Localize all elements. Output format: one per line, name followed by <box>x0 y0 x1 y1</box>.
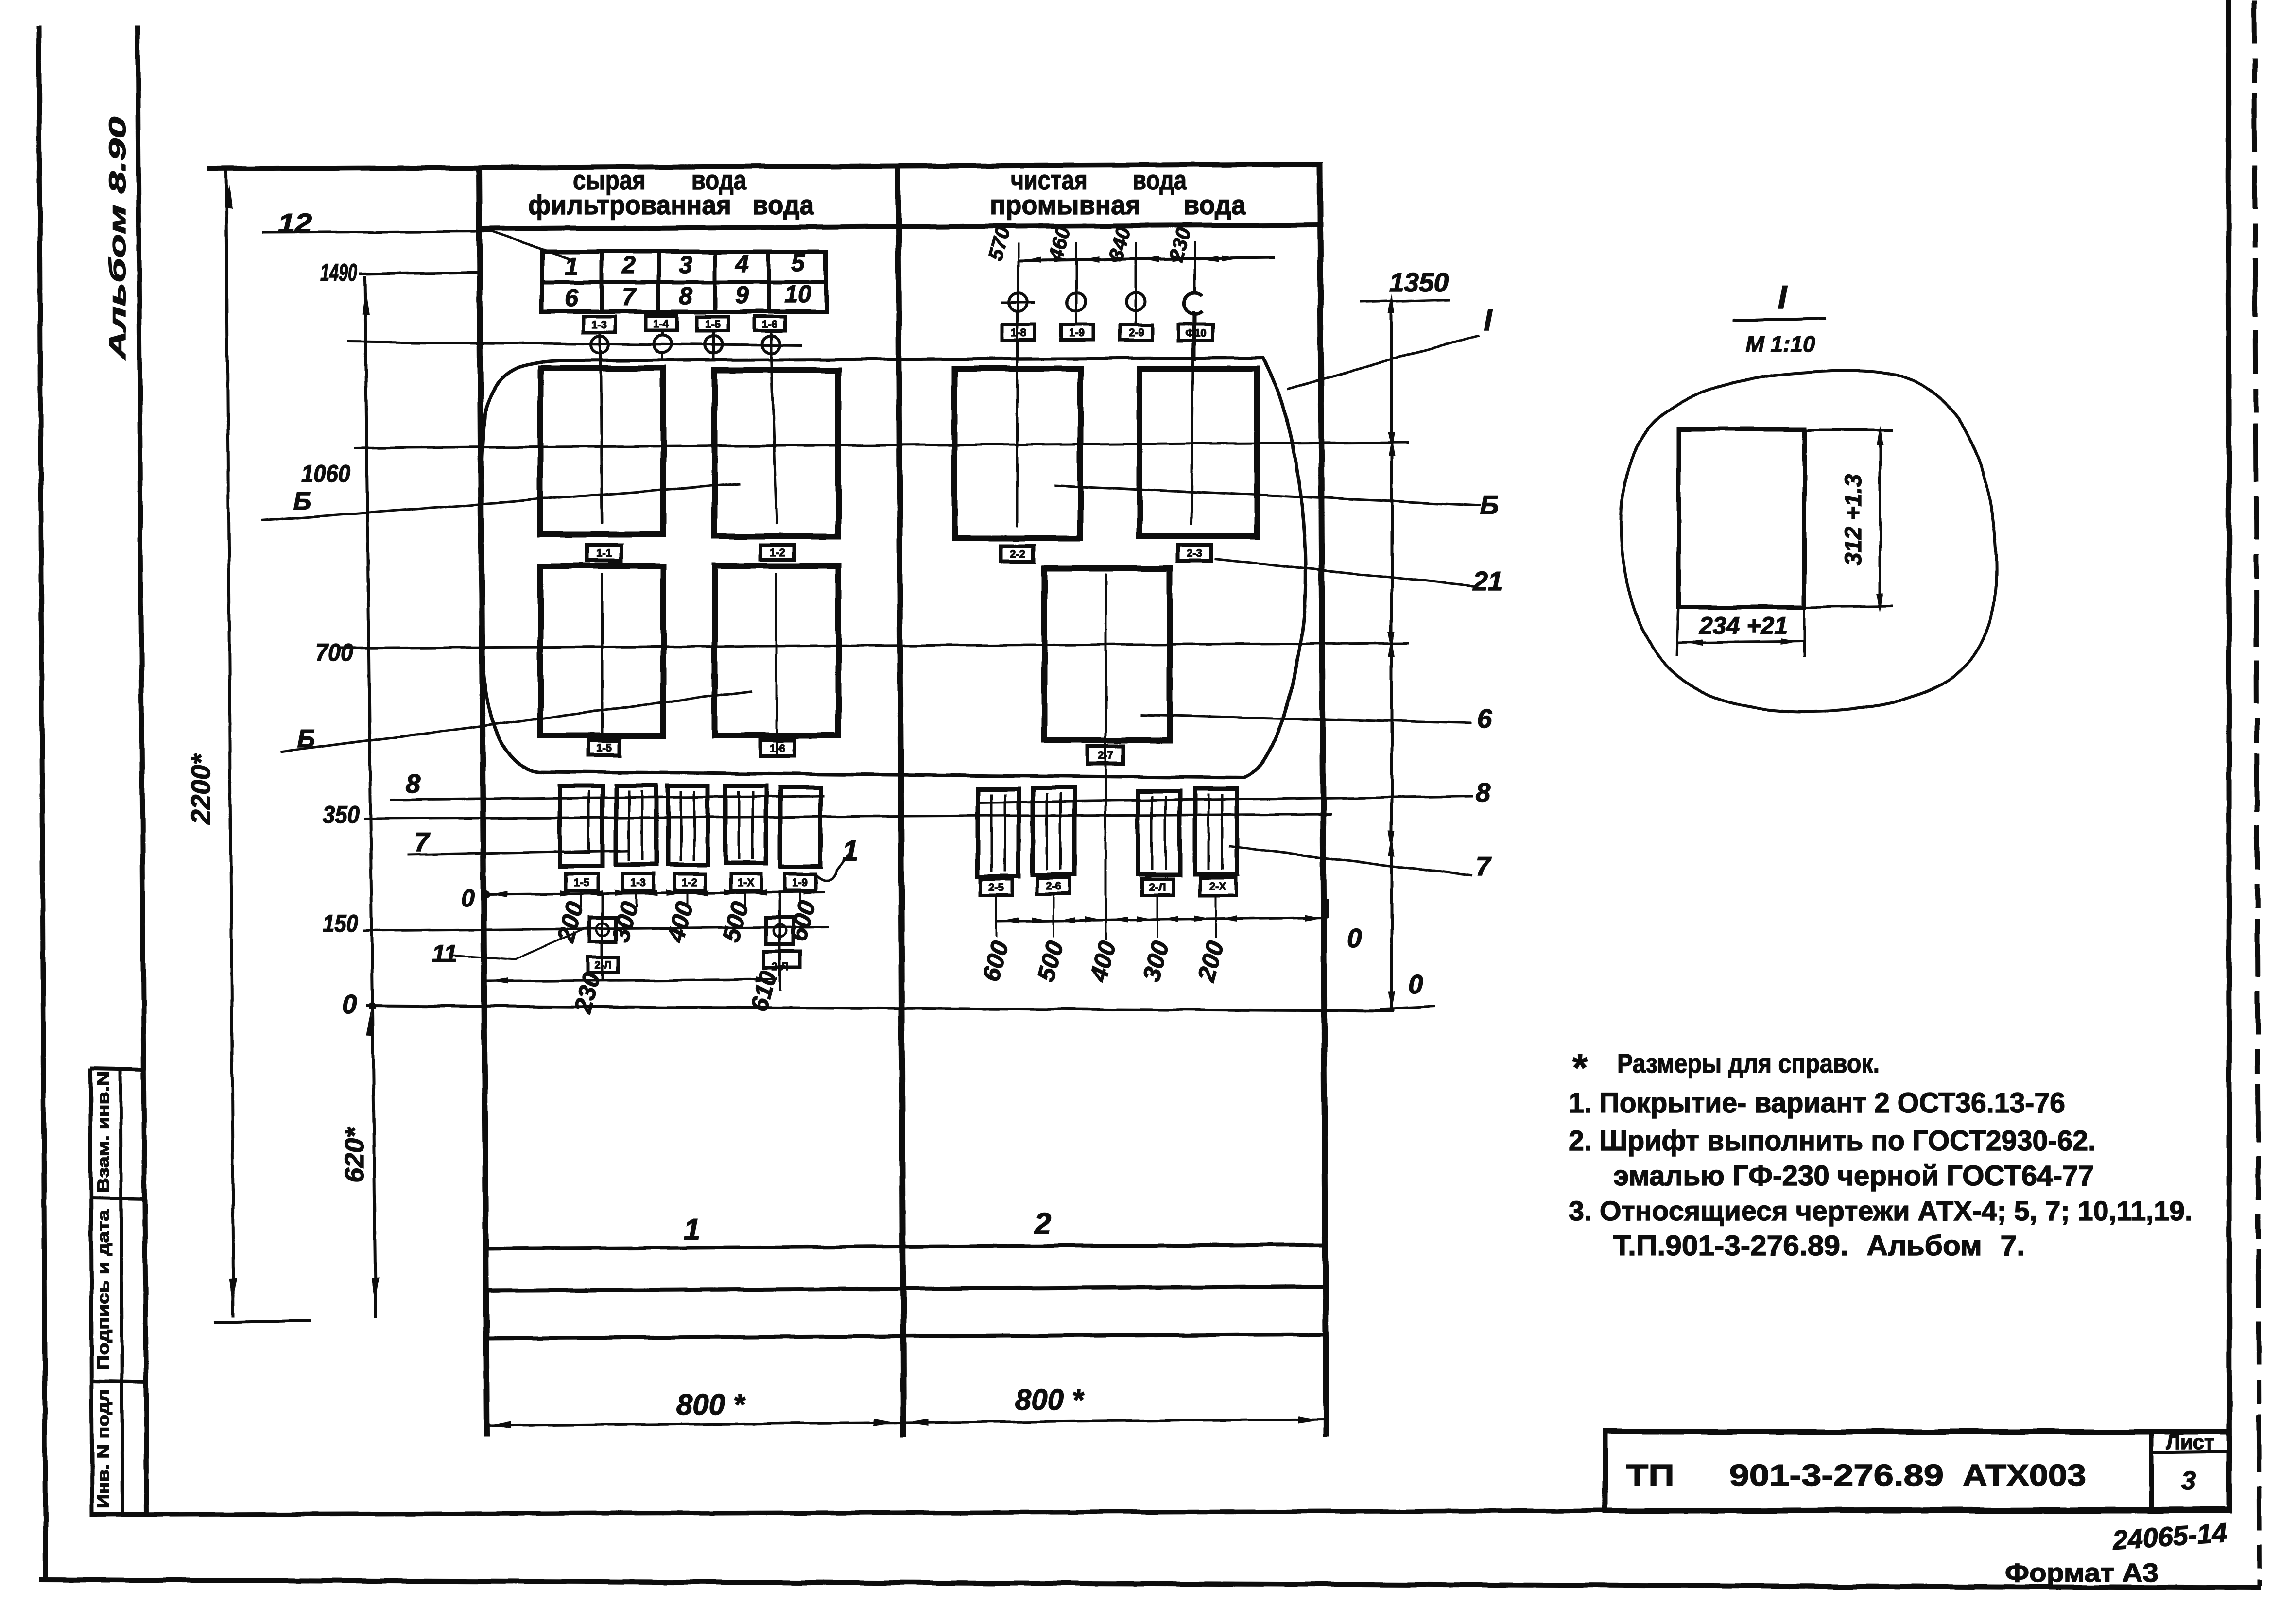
svg-text:2-Х: 2-Х <box>1209 880 1226 892</box>
svg-text:3: 3 <box>679 251 692 278</box>
svg-text:1-2: 1-2 <box>770 547 785 559</box>
svg-text:промывная вода: промывная вода <box>990 189 1246 220</box>
svg-text:1-5: 1-5 <box>574 876 589 889</box>
svg-text:1490: 1490 <box>320 259 357 286</box>
svg-text:5: 5 <box>791 249 805 276</box>
svg-text:8: 8 <box>1476 777 1491 807</box>
svg-text:фильтрованная вода: фильтрованная вода <box>528 189 814 220</box>
svg-text:1: 1 <box>565 253 578 280</box>
svg-text:1-5: 1-5 <box>705 318 721 330</box>
svg-text:620*: 620* <box>339 1127 369 1183</box>
svg-text:Инв. N подл: Инв. N подл <box>94 1389 113 1508</box>
svg-text:эмалью ГФ-230 черной ГОСТ64-77: эмалью ГФ-230 черной ГОСТ64-77 <box>1613 1160 2094 1192</box>
svg-text:12: 12 <box>278 208 312 238</box>
svg-text:1-2: 1-2 <box>682 876 697 889</box>
svg-text:1-6: 1-6 <box>770 742 785 754</box>
svg-text:0: 0 <box>1347 923 1362 953</box>
svg-text:2: 2 <box>1034 1207 1051 1241</box>
svg-text:1-5: 1-5 <box>596 742 612 754</box>
svg-text:2-Л: 2-Л <box>1149 881 1166 893</box>
svg-text:Альбом 8.90: Альбом 8.90 <box>105 116 131 360</box>
svg-text:2-9: 2-9 <box>1129 326 1144 339</box>
svg-text:I: I <box>1484 304 1493 337</box>
svg-text:0: 0 <box>461 885 475 912</box>
svg-text:1-6: 1-6 <box>762 318 777 330</box>
svg-text:Формат А3: Формат А3 <box>2005 1558 2158 1588</box>
svg-text:2: 2 <box>621 251 636 278</box>
svg-text:21: 21 <box>1472 566 1502 596</box>
svg-text:*: * <box>1572 1046 1588 1089</box>
svg-text:Б: Б <box>297 725 315 753</box>
svg-text:2-3: 2-3 <box>1187 547 1202 559</box>
svg-text:6: 6 <box>1477 703 1492 734</box>
svg-text:150: 150 <box>323 910 358 937</box>
svg-text:2-6: 2-6 <box>1046 880 1061 892</box>
svg-text:1-8: 1-8 <box>1011 326 1026 339</box>
svg-text:2-7: 2-7 <box>1098 749 1113 761</box>
svg-text:2-5: 2-5 <box>988 881 1004 893</box>
svg-text:312 +1.3: 312 +1.3 <box>1841 474 1866 565</box>
svg-text:1350: 1350 <box>1389 267 1449 297</box>
svg-text:М 1:10: М 1:10 <box>1745 331 1815 357</box>
svg-text:0: 0 <box>342 989 357 1019</box>
svg-text:1-3: 1-3 <box>630 876 646 889</box>
svg-text:2-Л: 2-Л <box>595 959 612 971</box>
svg-text:3. Относящиеся чертежи АТХ-4;: 3. Относящиеся чертежи АТХ-4; 5, 7; 10,1… <box>1569 1196 2192 1227</box>
svg-text:7: 7 <box>1476 851 1492 881</box>
svg-text:0: 0 <box>1408 969 1423 999</box>
svg-text:800 *: 800 * <box>1015 1384 1085 1416</box>
svg-text:3: 3 <box>2181 1466 2196 1495</box>
svg-text:ТП 901-3-276.89: ТП 901-3-276.89 <box>1626 1459 1944 1492</box>
svg-text:8: 8 <box>679 282 692 309</box>
svg-text:700: 700 <box>315 639 353 666</box>
svg-text:8: 8 <box>406 769 421 799</box>
svg-text:9: 9 <box>735 281 749 308</box>
svg-text:Б: Б <box>293 487 311 515</box>
svg-text:2-2: 2-2 <box>1010 548 1025 560</box>
svg-text:1-4: 1-4 <box>653 318 669 330</box>
svg-text:350: 350 <box>323 801 360 828</box>
svg-text:Подпись и дата: Подпись и дата <box>94 1209 113 1370</box>
svg-text:1-1: 1-1 <box>596 547 612 559</box>
svg-text:2. Шрифт выполнить по ГОСТ2930: 2. Шрифт выполнить по ГОСТ2930-62. <box>1569 1125 2096 1157</box>
svg-text:1-9: 1-9 <box>792 876 808 889</box>
svg-text:7: 7 <box>622 283 637 310</box>
svg-text:4: 4 <box>735 250 749 277</box>
svg-text:1: 1 <box>842 835 858 867</box>
svg-text:10: 10 <box>784 280 811 308</box>
svg-text:2200*: 2200* <box>186 753 216 825</box>
svg-text:АТХ003: АТХ003 <box>1963 1459 2086 1492</box>
svg-text:800 *: 800 * <box>676 1388 746 1421</box>
svg-text:1: 1 <box>684 1213 700 1247</box>
svg-text:Размеры для справок.: Размеры для справок. <box>1617 1048 1880 1078</box>
svg-text:I: I <box>1778 279 1788 316</box>
svg-text:11: 11 <box>432 940 457 967</box>
svg-text:1-3: 1-3 <box>591 319 607 331</box>
svg-text:2-Л: 2-Л <box>772 960 789 973</box>
svg-text:234 +21: 234 +21 <box>1699 612 1788 639</box>
svg-text:1060: 1060 <box>301 460 350 487</box>
svg-text:Т.П.901-3-276.89. Альбом 7.: Т.П.901-3-276.89. Альбом 7. <box>1613 1230 2025 1262</box>
svg-text:Взам. инв.N: Взам. инв.N <box>94 1071 113 1193</box>
svg-text:1. Покрытие- вариант 2 ОСТ36.1: 1. Покрытие- вариант 2 ОСТ36.13-76 <box>1569 1087 2065 1119</box>
svg-text:6: 6 <box>565 284 579 311</box>
svg-text:1-Х: 1-Х <box>738 876 755 889</box>
svg-text:Б: Б <box>1480 490 1499 520</box>
svg-text:7: 7 <box>414 827 431 857</box>
svg-text:1-9: 1-9 <box>1069 326 1085 339</box>
svg-text:Лист: Лист <box>2166 1431 2214 1453</box>
svg-text:Ф10: Ф10 <box>1185 327 1206 339</box>
